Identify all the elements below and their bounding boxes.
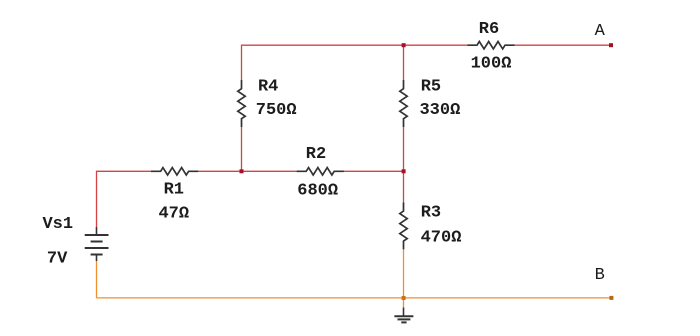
wire left vertical: middle net corner down to battery plus	[96, 171, 98, 227]
svg-text:Vs1: Vs1	[42, 215, 73, 234]
wire middle junction down to R3 top	[403, 171, 405, 202]
svg-text:B: B	[595, 266, 605, 285]
node A endpoint dot	[609, 43, 613, 47]
wire right vertical: top junction down to R5 top	[403, 45, 405, 80]
svg-text:R5: R5	[421, 77, 441, 96]
resistor R6 body (horizontal, center 491,45.2)	[467, 42, 514, 49]
svg-text:R4: R4	[258, 77, 278, 96]
svg-text:330Ω: 330Ω	[419, 101, 460, 120]
wire R5 bottom to middle net junction	[403, 127, 405, 171]
svg-text:R2: R2	[306, 145, 326, 164]
node junction dot middle-right (R2/R5/R3 net)	[402, 169, 406, 173]
svg-text:47Ω: 47Ω	[158, 205, 189, 224]
svg-text:R1: R1	[164, 180, 184, 199]
wire middle net: R1 right lead through junction to R2 left lead	[198, 170, 297, 172]
resistor R4 body (vertical, x 241.5, y 80-127)	[238, 80, 245, 127]
svg-text:7V: 7V	[47, 249, 68, 268]
wire orange: battery minus down to bottom corner	[96, 261, 98, 298]
wire orange stub junction to ground symbol	[403, 298, 405, 308]
battery Vs1 symbol	[85, 227, 109, 261]
resistor R5 body (vertical, x 403.5, y 80-127)	[400, 80, 407, 127]
node junction dot top (R4/R5 net)	[402, 43, 406, 47]
wire R4 bottom to middle net junction	[241, 127, 243, 171]
wire left vertical of top net down to R4 top	[241, 45, 243, 80]
svg-text:100Ω: 100Ω	[471, 54, 512, 73]
svg-text:680Ω: 680Ω	[297, 181, 338, 200]
ground symbol	[394, 308, 413, 323]
svg-text:A: A	[595, 22, 606, 41]
node junction dot middle-left (R1/R2/R4 net)	[240, 169, 244, 173]
node junction dot ground net	[402, 296, 406, 300]
wire top net: R6 right lead to node A	[515, 44, 611, 46]
node B endpoint dot	[609, 296, 613, 300]
resistor R1 body (horizontal, center 174.5,171.3)	[151, 168, 198, 175]
wire orange bottom net: corner to node B	[97, 297, 612, 299]
wire orange: R3 bottom to ground net	[403, 249, 405, 298]
wire middle net: R2 right lead to right junction	[341, 170, 403, 172]
svg-text:470Ω: 470Ω	[421, 229, 462, 248]
resistor R3 body (vertical, x 403.5, y 202.4-249.4)	[400, 202, 407, 249]
svg-text:R3: R3	[421, 204, 441, 223]
svg-text:R6: R6	[479, 20, 499, 39]
svg-text:750Ω: 750Ω	[256, 101, 297, 120]
resistor R2 body (horizontal, center 319,171.3)	[297, 168, 344, 175]
wire top net: node corner above R4 to R6 left lead	[242, 44, 468, 46]
wire middle net: left corner to R1 left lead	[97, 170, 152, 172]
